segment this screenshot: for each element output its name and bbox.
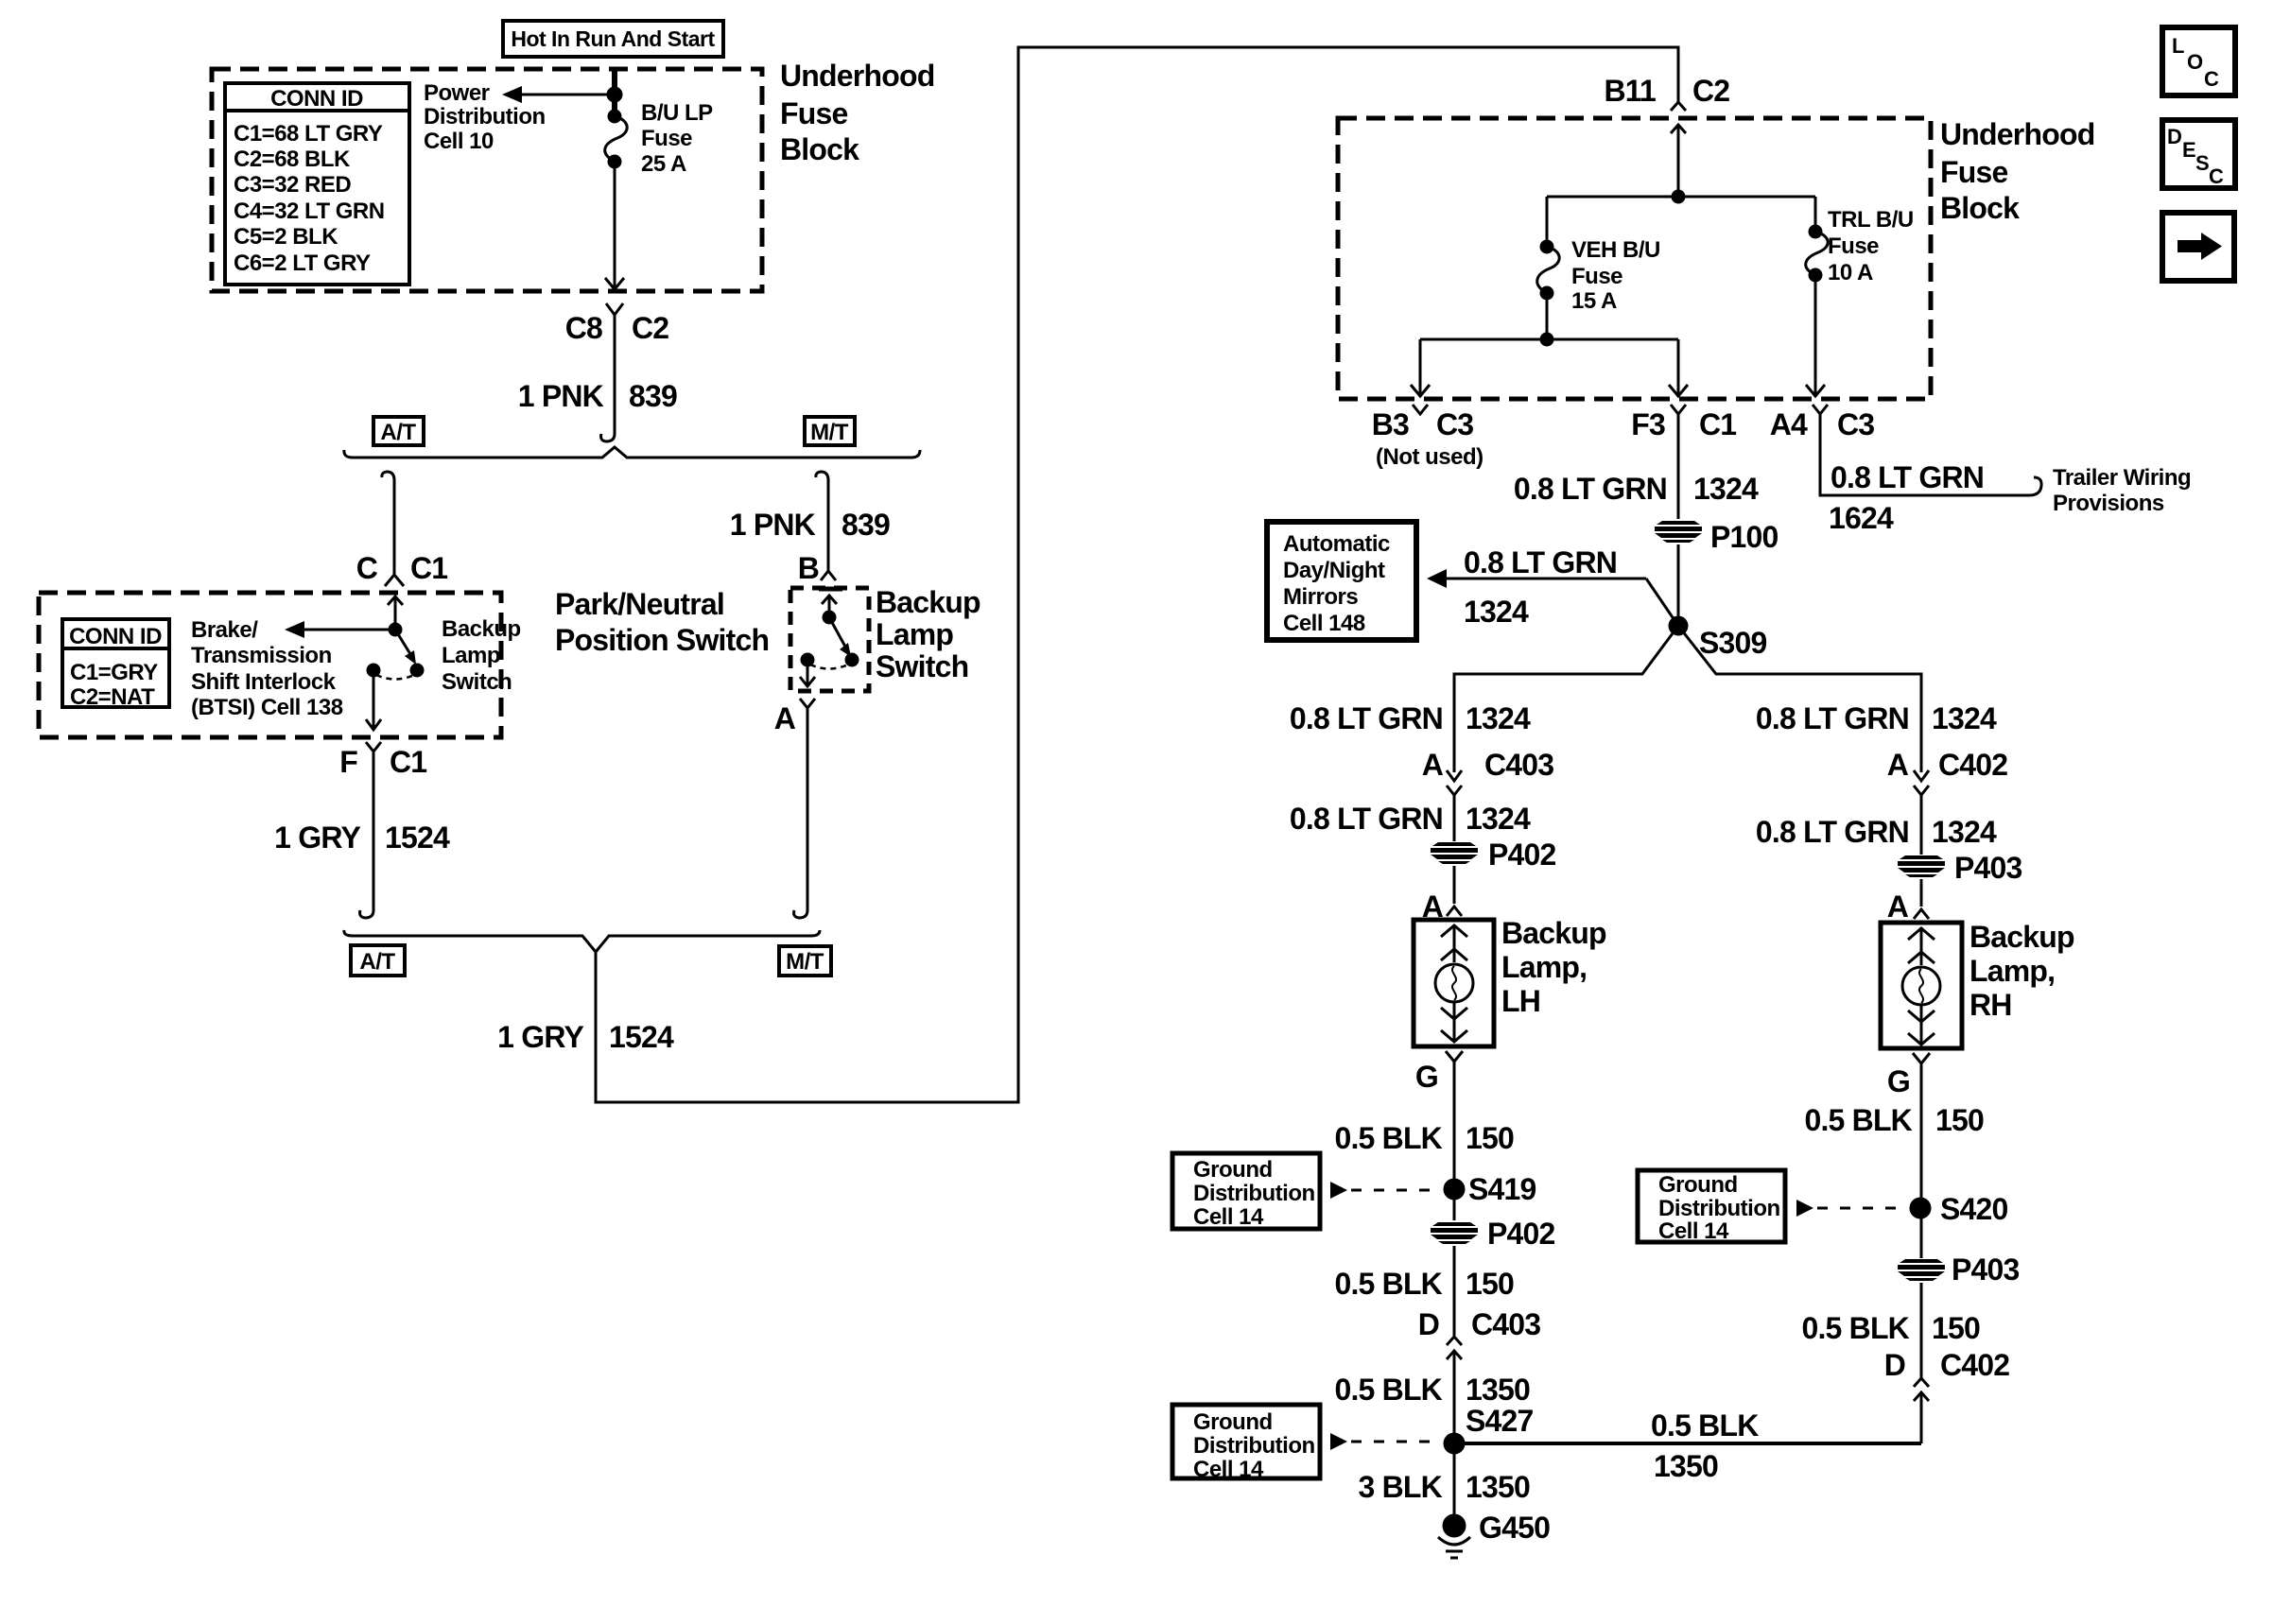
fuse TRL B/U Fuse 10 A (1806, 226, 1828, 281)
wire S309 to RH branch (1678, 626, 1921, 772)
svg-text:Mirrors: Mirrors (1283, 584, 1358, 610)
svg-text:Brake/: Brake/ (191, 617, 258, 643)
label wire 0.8 LT GRN 1324 (RH row 2) (1756, 815, 1997, 849)
svg-text:Cell 14: Cell 14 (1193, 1457, 1264, 1482)
label Trailer Wiring Provisions (2053, 465, 2191, 516)
wire A/T branch down to C/C1 (393, 478, 396, 575)
svg-text:Switch: Switch (442, 669, 512, 695)
wire thick feed from Hot In Run into fuse block (612, 69, 617, 117)
svg-text:C4=32 LT GRN: C4=32 LT GRN (234, 199, 385, 224)
svg-text:Distribution: Distribution (424, 104, 546, 130)
svg-text:Cell 14: Cell 14 (1658, 1218, 1729, 1244)
svg-text:A/T: A/T (380, 420, 416, 445)
label wire 0.5 BLK 150 (RH row 1) (1804, 1103, 1984, 1137)
label wire 0.8 LT GRN 1324 (RH row 1) (1756, 701, 1997, 735)
svg-text:B3: B3 (1372, 407, 1409, 441)
label B/U LP Fuse 25 A (641, 100, 713, 177)
label Backup Lamp Switch (Park/Neutral) (442, 616, 521, 695)
svg-text:Distribution: Distribution (1193, 1433, 1315, 1459)
node splice S309 (1670, 617, 1767, 660)
svg-text:C2: C2 (632, 311, 668, 345)
svg-text:Backup: Backup (442, 616, 521, 642)
svg-text:Switch: Switch (876, 649, 968, 683)
svg-text:Cell 148: Cell 148 (1283, 611, 1365, 636)
wire fuse feed rail (1547, 196, 1815, 199)
wire BTSI branch with arrow (285, 621, 395, 638)
connector A pin fork (RH lamp) (1887, 890, 1929, 924)
svg-text:1524: 1524 (609, 1020, 674, 1054)
svg-text:A/T: A/T (359, 949, 395, 975)
label wire 1 GRY 1524 (common) (497, 1020, 674, 1054)
label Underhood Fuse Block (right) (1940, 117, 2094, 225)
svg-text:Lamp,: Lamp, (1969, 954, 2055, 988)
svg-text:C1: C1 (1699, 407, 1736, 441)
svg-text:S427: S427 (1466, 1404, 1534, 1438)
wire A4 to trailer wiring provisions with hook (1820, 414, 2041, 495)
svg-text:B/U LP: B/U LP (641, 100, 713, 126)
svg-text:Ground: Ground (1193, 1409, 1273, 1435)
svg-text:O: O (2187, 50, 2203, 74)
svg-text:C: C (2209, 164, 2224, 188)
node brace for A/T and M/T options (bottom) (344, 930, 820, 952)
svg-text:(Not used): (Not used) (1376, 444, 1484, 470)
wire drop to TRL fuse (1814, 197, 1817, 227)
svg-text:Lamp: Lamp (876, 617, 953, 651)
label wire 0.8 LT GRN 1324 (mirrors) (1464, 545, 1617, 629)
svg-text:C1: C1 (410, 551, 447, 585)
wire S427 to RH column (1454, 1442, 1921, 1445)
lamp Backup Lamp RH (1881, 923, 1962, 1048)
connector C8 / C2 inline fork (565, 303, 669, 434)
fuse B/U LP Fuse 25 A (605, 111, 627, 167)
svg-text:D: D (2167, 125, 2182, 148)
label Brake/Transmission Shift Interlock (BTSI) Cell 138 (191, 617, 343, 720)
wire P403 to D/C402 (1920, 1283, 1923, 1378)
ground G450 (1438, 1511, 1550, 1558)
svg-text:150: 150 (1932, 1311, 1980, 1345)
svg-text:C2: C2 (1692, 74, 1729, 108)
svg-text:1 PNK: 1 PNK (730, 508, 816, 542)
svg-text:Ground: Ground (1658, 1172, 1738, 1198)
svg-text:D: D (1418, 1307, 1439, 1341)
label Underhood Fuse Block (left) (780, 59, 934, 166)
svg-text:Fuse: Fuse (1940, 155, 2008, 189)
svg-text:Block: Block (1940, 191, 2020, 225)
label wire 0.8 LT GRN 1324 (LH row 2) (1290, 802, 1531, 836)
svg-text:P402: P402 (1487, 1217, 1555, 1251)
svg-text:0.8 LT GRN: 0.8 LT GRN (1290, 701, 1443, 735)
svg-text:839: 839 (629, 379, 677, 413)
svg-text:0.5 BLK: 0.5 BLK (1651, 1408, 1759, 1443)
node Hot In Run And Start (power feed tag) (503, 21, 723, 57)
label Backup Lamp, RH (1969, 920, 2074, 1022)
CONN ID table (Park/Neutral switch) (62, 619, 169, 710)
node A/T tag (top) (373, 417, 424, 445)
svg-text:Provisions: Provisions (2053, 491, 2164, 516)
svg-text:Trailer Wiring: Trailer Wiring (2053, 465, 2191, 491)
svg-text:Backup: Backup (1501, 916, 1606, 950)
svg-text:C8: C8 (565, 311, 602, 345)
node LOC reference icon (2162, 27, 2235, 95)
svg-text:Distribution: Distribution (1658, 1196, 1780, 1221)
svg-text:C1=68 LT GRY: C1=68 LT GRY (234, 121, 383, 147)
Park/Neutral Position Switch dashed outline (39, 593, 501, 737)
wire P402 to D/C403 (1453, 1246, 1456, 1336)
connector P100 pass-through (1655, 520, 1778, 554)
wire S420 to P403 (1920, 1208, 1923, 1258)
wire from bottom brace across to right section (596, 47, 1678, 1102)
svg-text:Fuse: Fuse (641, 126, 692, 151)
svg-text:C5=2 BLK: C5=2 BLK (234, 224, 338, 250)
label wire 0.8 LT GRN 1624 (1829, 460, 1984, 535)
svg-text:150: 150 (1466, 1121, 1514, 1155)
Automatic Day/Night Mirrors Cell 148 box (1267, 522, 1416, 640)
node splice S427 (1445, 1434, 1464, 1453)
svg-text:B: B (798, 551, 819, 585)
connector A / C402 inline (1887, 748, 2008, 855)
svg-text:A4: A4 (1770, 407, 1808, 441)
svg-text:RH: RH (1969, 988, 2012, 1022)
svg-text:1524: 1524 (385, 821, 450, 855)
svg-text:1324: 1324 (1466, 701, 1531, 735)
Ground Distribution Cell 14 box (S419) (1172, 1153, 1320, 1230)
label wire 1 PNK 839 (518, 379, 677, 413)
connector P403 pass-through (upper) (1898, 851, 2022, 885)
connector P402 pass-through (lower) (1431, 1217, 1555, 1251)
svg-text:1350: 1350 (1654, 1449, 1718, 1483)
svg-text:G: G (1887, 1064, 1910, 1098)
wire M/T branch hook (816, 472, 828, 480)
svg-text:Fuse: Fuse (1828, 233, 1879, 259)
svg-text:C1=GRY: C1=GRY (70, 660, 158, 685)
svg-text:0.5 BLK: 0.5 BLK (1801, 1311, 1909, 1345)
svg-text:P402: P402 (1488, 838, 1556, 872)
svg-text:1324: 1324 (1932, 701, 1997, 735)
node junction dot at power feed (608, 88, 621, 101)
connector B3 / C3 (not used) (1372, 405, 1484, 470)
svg-text:L: L (2172, 34, 2184, 58)
svg-text:1324: 1324 (1466, 802, 1531, 836)
node splice S419 (1445, 1172, 1536, 1206)
wire S419 to P402 (1453, 1189, 1456, 1220)
svg-text:(BTSI) Cell 138: (BTSI) Cell 138 (191, 695, 343, 720)
svg-text:0.8 LT GRN: 0.8 LT GRN (1464, 545, 1617, 579)
wire S309 to LH branch (1454, 626, 1678, 772)
wire into block with up arrow to B11 (1671, 125, 1686, 197)
svg-text:Underhood: Underhood (1940, 117, 2094, 151)
svg-text:Backup: Backup (1969, 920, 2074, 954)
node junction below VEH fuse (1541, 334, 1553, 345)
CONN ID table (Underhood Fuse Block) (225, 83, 409, 285)
wire P100 to S309 (1677, 544, 1680, 626)
Ground Distribution Cell 14 box (S420) (1638, 1170, 1785, 1244)
wire P403 to lamp A pin (1920, 879, 1923, 907)
Underhood Fuse Block (right) dashed outline (1338, 118, 1931, 399)
svg-text:Transmission: Transmission (191, 643, 332, 668)
connector B11 / C2 inline fork (1604, 74, 1729, 111)
lamp Backup Lamp LH (1414, 920, 1494, 1046)
svg-text:1 PNK: 1 PNK (518, 379, 604, 413)
node M/T tag (top) (805, 417, 855, 445)
connector D / C402 inline (1884, 1348, 2010, 1443)
svg-text:Cell 14: Cell 14 (1193, 1204, 1264, 1230)
svg-text:0.8 LT GRN: 0.8 LT GRN (1756, 815, 1909, 849)
svg-text:Block: Block (780, 132, 859, 166)
svg-text:1350: 1350 (1466, 1470, 1530, 1504)
wire dashed reference to S427 with arrow (1330, 1433, 1441, 1450)
svg-text:Underhood: Underhood (780, 59, 934, 93)
label wire 0.8 LT GRN 1324 (LH row 1) (1290, 701, 1531, 735)
svg-text:1 GRY: 1 GRY (274, 821, 360, 855)
svg-text:S: S (2195, 151, 2210, 175)
svg-text:S309: S309 (1699, 626, 1767, 660)
svg-text:TRL B/U: TRL B/U (1828, 207, 1914, 233)
connector A / C403 inline (1422, 748, 1554, 841)
wire branch to Power Distribution with arrow (502, 86, 615, 103)
svg-text:0.8 LT GRN: 0.8 LT GRN (1756, 701, 1909, 735)
svg-text:0.8 LT GRN: 0.8 LT GRN (1514, 472, 1667, 506)
svg-text:1624: 1624 (1829, 501, 1894, 535)
svg-text:Shift Interlock: Shift Interlock (191, 669, 337, 695)
wire end hook above bottom brace (M/T side) (794, 907, 807, 918)
svg-text:Cell 10: Cell 10 (424, 129, 494, 154)
svg-text:Distribution: Distribution (1193, 1181, 1315, 1206)
svg-text:A: A (1887, 748, 1909, 782)
svg-text:E: E (2182, 138, 2196, 162)
Backup Lamp Switch (M/T) dashed outline (790, 588, 869, 691)
wire dashed reference to S420 with arrow (1796, 1200, 1907, 1217)
node junction in fuse block (1673, 191, 1684, 202)
wire to B3 with down arrow (1411, 339, 1430, 396)
svg-text:15 A: 15 A (1571, 288, 1617, 314)
connector C / C1 inline fork (356, 551, 448, 586)
wire M/T branch down to B (827, 478, 830, 571)
svg-text:C403: C403 (1471, 1307, 1540, 1341)
svg-text:10 A: 10 A (1828, 260, 1873, 285)
node arrow reference icon (2162, 213, 2234, 281)
connector A4 / C3 inline fork (1770, 405, 1875, 441)
label wire 1 GRY 1524 (A/T branch) (274, 821, 450, 855)
label Backup Lamp, LH (1501, 916, 1606, 1018)
svg-text:C1: C1 (390, 745, 426, 779)
connector F3 / C1 inline fork (1631, 405, 1736, 519)
label wire 0.5 BLK 150 (RH row 2) (1801, 1311, 1980, 1345)
connector D / C403 inline (1418, 1307, 1541, 1434)
svg-text:1 GRY: 1 GRY (497, 1020, 583, 1054)
svg-text:CONN ID: CONN ID (69, 624, 162, 649)
wire distribution rail to B3 and F3 (1420, 338, 1678, 341)
connector P403 pass-through (lower) (1898, 1253, 2020, 1287)
node A/T tag (bottom) (351, 945, 405, 976)
label wire 0.5 BLK 150 (LH row 1) (1334, 1121, 1514, 1155)
wire below VEH fuse to distribution node (1546, 293, 1549, 339)
label wire 3 BLK 1350 (1359, 1470, 1530, 1504)
label wire 0.8 LT GRN 1324 (F3) (1514, 472, 1759, 506)
switch backup lamp (M/T) contacts (800, 589, 858, 686)
svg-text:P403: P403 (1952, 1253, 2020, 1287)
svg-text:C3: C3 (1436, 407, 1473, 441)
svg-text:Position Switch: Position Switch (555, 623, 769, 657)
svg-text:Fuse: Fuse (780, 96, 848, 130)
svg-text:Power: Power (424, 80, 490, 106)
wire to F3 with down arrow (1669, 339, 1688, 396)
svg-text:1350: 1350 (1466, 1373, 1530, 1407)
svg-text:A: A (1887, 890, 1909, 924)
svg-text:0.5 BLK: 0.5 BLK (1804, 1103, 1912, 1137)
node brace for A/T and M/T options (top) (344, 447, 920, 458)
svg-text:Day/Night: Day/Night (1283, 558, 1385, 583)
svg-text:C2=68 BLK: C2=68 BLK (234, 147, 351, 172)
svg-text:G450: G450 (1479, 1511, 1550, 1545)
svg-text:25 A: 25 A (641, 151, 686, 177)
label Backup Lamp Switch (M/T) (876, 585, 980, 683)
switch backup lamp contacts (in Park/Neutral switch) (368, 596, 423, 680)
svg-text:1324: 1324 (1464, 595, 1529, 629)
label wire 0.5 BLK 1350 (1334, 1373, 1530, 1407)
Ground Distribution Cell 14 box (S427) (1172, 1405, 1320, 1482)
connector B inline fork (798, 551, 836, 585)
node splice S420 (1911, 1192, 2008, 1226)
svg-text:F3: F3 (1631, 407, 1665, 441)
label TRL B/U Fuse 10 A (1828, 207, 1914, 285)
svg-text:839: 839 (842, 508, 890, 542)
svg-text:A: A (774, 701, 796, 735)
svg-text:Lamp: Lamp (442, 643, 500, 668)
svg-text:1324: 1324 (1932, 815, 1997, 849)
svg-text:C2=NAT: C2=NAT (70, 684, 155, 710)
node DESC reference icon (2162, 120, 2235, 188)
wire below TRL fuse to A4 with down arrow (1806, 275, 1825, 396)
wire from fuse to block edge with down arrow (605, 162, 624, 289)
svg-text:C: C (2204, 67, 2219, 91)
svg-text:G: G (1415, 1060, 1438, 1094)
svg-text:0.8 LT GRN: 0.8 LT GRN (1290, 802, 1443, 836)
connector G pin fork (RH lamp) (1887, 1053, 1930, 1200)
svg-text:P100: P100 (1710, 520, 1778, 554)
svg-text:Backup: Backup (876, 585, 980, 619)
svg-text:C3: C3 (1837, 407, 1874, 441)
svg-text:C: C (356, 551, 378, 585)
wire P402 to lamp A pin (1453, 866, 1456, 904)
connector A inline fork (M/T switch) (774, 699, 815, 910)
svg-text:Fuse: Fuse (1571, 264, 1622, 289)
svg-text:F: F (339, 745, 357, 779)
wire drop to VEH fuse (1546, 197, 1549, 242)
svg-text:150: 150 (1466, 1267, 1514, 1301)
svg-text:LH: LH (1501, 984, 1540, 1018)
node M/T tag (bottom) (779, 946, 831, 976)
connector A pin fork (LH lamp) (1422, 890, 1462, 924)
svg-text:0.8 LT GRN: 0.8 LT GRN (1831, 460, 1984, 494)
wire branch to Automatic Day/Night Mirrors with arrow (1427, 569, 1678, 626)
connector P402 pass-through (upper) (1431, 838, 1556, 872)
svg-text:CONN ID: CONN ID (270, 86, 363, 112)
connector F / C1 inline fork (339, 742, 426, 910)
wire end hook above A/T-M/T brace (601, 430, 615, 441)
svg-text:S419: S419 (1468, 1172, 1536, 1206)
fuse VEH B/U Fuse 15 A (1537, 241, 1559, 299)
svg-text:C403: C403 (1484, 748, 1553, 782)
label wire 1 PNK 839 (M/T branch) (730, 508, 890, 542)
svg-text:S420: S420 (1940, 1192, 2008, 1226)
label wire 0.5 BLK 150 (LH row 2) (1334, 1267, 1514, 1301)
label VEH B/U Fuse 15 A (1571, 237, 1660, 314)
svg-text:Lamp,: Lamp, (1501, 950, 1587, 984)
svg-text:Automatic: Automatic (1283, 531, 1390, 557)
svg-text:Ground: Ground (1193, 1157, 1273, 1183)
svg-text:VEH B/U: VEH B/U (1571, 237, 1660, 263)
label Park/Neutral Position Switch (555, 587, 769, 657)
svg-text:C6=2 LT GRY: C6=2 LT GRY (234, 251, 371, 276)
svg-text:150: 150 (1935, 1103, 1984, 1137)
label Power Distribution Cell 10 (424, 80, 546, 154)
svg-text:0.5 BLK: 0.5 BLK (1334, 1267, 1442, 1301)
svg-text:D: D (1884, 1348, 1905, 1382)
wire S427 to ground (1453, 1443, 1456, 1517)
svg-text:B11: B11 (1604, 74, 1656, 108)
label wire 0.5 BLK 1350 (cross wire) (1651, 1408, 1759, 1483)
svg-text:P403: P403 (1954, 851, 2022, 885)
svg-text:M/T: M/T (810, 420, 849, 445)
svg-text:C3=32 RED: C3=32 RED (234, 172, 351, 198)
svg-text:A: A (1422, 748, 1444, 782)
Underhood Fuse Block (left) dashed outline (212, 69, 762, 291)
wire from switch to F/C1 with down arrow (366, 676, 381, 730)
svg-text:M/T: M/T (786, 949, 824, 975)
svg-text:3 BLK: 3 BLK (1359, 1470, 1443, 1504)
svg-text:0.5 BLK: 0.5 BLK (1334, 1121, 1442, 1155)
connector G pin fork (LH lamp) (1415, 1051, 1463, 1181)
svg-text:1324: 1324 (1693, 472, 1759, 506)
svg-text:C402: C402 (1938, 748, 2007, 782)
svg-text:C402: C402 (1940, 1348, 2009, 1382)
wire end hook above bottom brace (A/T side) (360, 907, 373, 918)
wire A/T branch hook (382, 472, 394, 480)
svg-text:Hot In Run And Start: Hot In Run And Start (511, 26, 715, 51)
wire dashed reference to S419 with arrow (1330, 1182, 1441, 1199)
svg-text:0.5 BLK: 0.5 BLK (1334, 1373, 1442, 1407)
svg-text:Park/Neutral: Park/Neutral (555, 587, 724, 621)
